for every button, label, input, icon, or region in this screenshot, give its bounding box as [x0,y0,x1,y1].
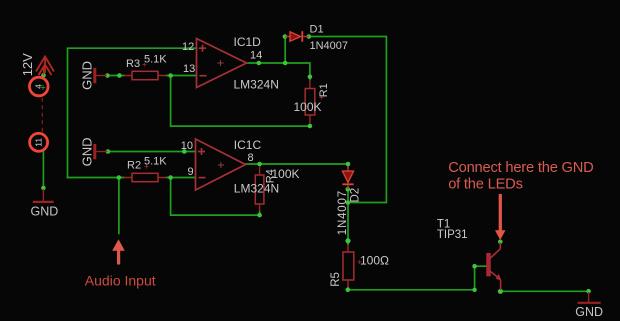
svg-text:D2: D2 [350,188,362,203]
svg-text:LM324N: LM324N [234,78,279,92]
svg-text:R1: R1 [318,83,330,97]
svg-text:12: 12 [182,41,194,53]
svg-text:5.1K: 5.1K [144,156,167,168]
svg-text:5.1K: 5.1K [144,54,167,66]
svg-text:11: 11 [33,138,43,147]
svg-text:GND: GND [80,138,95,167]
svg-text:Connect here the GND: Connect here the GND [448,160,593,176]
svg-text:8: 8 [248,152,254,164]
svg-text:IC1C: IC1C [234,138,262,152]
svg-text:14: 14 [250,50,262,62]
svg-text:R4: R4 [265,169,277,183]
svg-text:10: 10 [181,140,193,152]
svg-text:100K: 100K [294,100,322,114]
svg-text:GND: GND [80,61,95,90]
svg-text:100Ω: 100Ω [360,254,389,268]
svg-text:D1: D1 [310,24,324,36]
svg-text:12V: 12V [20,53,35,76]
svg-text:1N4007: 1N4007 [310,40,349,52]
svg-text:GND: GND [31,204,59,218]
svg-text:R5: R5 [330,272,342,287]
svg-text:Audio Input: Audio Input [85,273,156,289]
svg-text:1N4007: 1N4007 [337,190,349,235]
svg-text:GND: GND [575,305,603,319]
svg-text:9: 9 [188,166,194,178]
svg-text:of the LEDs: of the LEDs [448,176,523,192]
svg-text:TIP31: TIP31 [437,229,468,241]
svg-text:13: 13 [183,63,195,75]
svg-text:4: 4 [34,84,44,89]
svg-text:R3: R3 [126,58,140,70]
svg-text:IC1D: IC1D [234,35,262,49]
svg-text:R2: R2 [127,160,141,172]
